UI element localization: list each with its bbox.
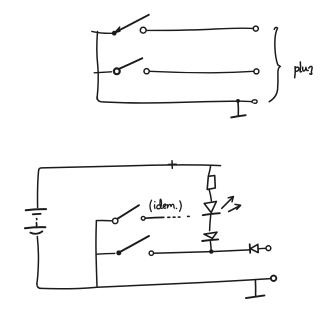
wire: LED D2 to bottom junction (209, 242, 212, 252)
LED D2 cathode bar (202, 239, 218, 241)
switch S3 pivot circle (113, 218, 118, 223)
resistor R1 body (207, 176, 215, 190)
wire: LED D1 to LED D2 (210, 216, 211, 231)
output terminal circle (266, 246, 271, 251)
wire: drop from top bus to resistor (208, 166, 210, 176)
node: junction dot at ground tap (236, 99, 240, 103)
ground G2 stem (254, 280, 256, 296)
switch S1 throw terminal circle (140, 27, 146, 33)
switch S2 lever (119, 58, 142, 69)
wire: S2 to plug pin 2 (149, 71, 253, 73)
switch S1 stub wire (92, 31, 112, 33)
label "(idem.)" (150, 199, 181, 211)
switch S4 stub wire (96, 252, 115, 255)
battery B1 long plate 2 (25, 227, 46, 228)
plug pin 3 terminal loop (252, 100, 257, 104)
wire: bottom-section top bus with rounded corner (39, 165, 221, 171)
wire: S4 terminal to junction and on to diode (154, 250, 250, 253)
battery B1 long plate 1 (26, 209, 46, 210)
battery B1 dots (more cells) (36, 219, 38, 220)
wire: bottom-section bottom bus (37, 279, 271, 289)
diode D3 cathode bar (249, 244, 252, 253)
battery B1 top wire (left vertical) (38, 171, 39, 208)
bottom output terminal circle (271, 276, 276, 281)
plug pin 1 terminal circle (253, 26, 258, 31)
battery B1 short plate 1 (33, 213, 41, 216)
switch S4 lever (121, 236, 149, 251)
wire: top-section bottom bus (97, 97, 238, 103)
switch S2 stub wire (94, 72, 111, 73)
wire: inner left bus of switch block (96, 221, 97, 286)
battery B1 cup plate (30, 231, 42, 233)
switch S3 throw terminal circle (141, 216, 145, 220)
switch S3 lever (118, 205, 139, 219)
wire: S1 to plug pin 1 (146, 28, 253, 30)
ground G1 bar (231, 115, 245, 117)
wire: dotted continuation (168, 215, 189, 218)
LED D1 triangle (204, 201, 216, 212)
node: junction dot LED/diode row (209, 249, 213, 253)
battery B1 bottom wire (left vertical) (37, 237, 39, 284)
label + polarity (171, 161, 173, 169)
switch S1 lever (115, 15, 148, 32)
LED D2 triangle (204, 232, 217, 238)
switch S4 pivot dot (116, 250, 121, 255)
LED D1 cathode bar (203, 213, 220, 215)
ground G1 stem (237, 102, 239, 116)
wire: resistor to LED D1 (209, 190, 211, 201)
wire: S3 short stub right (145, 216, 164, 219)
switch S1 arrowhead (115, 27, 120, 33)
switch S3 stub wire (96, 219, 111, 221)
LED D1 light arrow 2 (229, 206, 240, 212)
LED D1 light arrow 1 (222, 197, 233, 208)
switch S4 throw terminal circle (149, 251, 153, 255)
ground G2 bar (246, 295, 264, 298)
switch S1 pivot dot (112, 31, 117, 36)
diode D3 triangle (250, 244, 258, 252)
wire: junction to plug pin 3 (238, 100, 252, 103)
plug pin 2 terminal circle (254, 69, 259, 74)
switch S2 throw terminal circle (144, 69, 149, 74)
switch S2 pivot circle (114, 68, 120, 74)
brace for plug (269, 27, 280, 101)
wire: top-section left vertical bus (97, 32, 98, 100)
label "plus" (295, 62, 312, 78)
wire: diode to output terminal (259, 247, 267, 249)
